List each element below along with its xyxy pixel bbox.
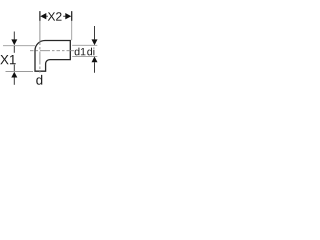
di label [87,48,94,56]
di dim bottom shaft [94,62,96,73]
di bottom extension line [72,55,97,57]
X1 top arrow [11,39,17,45]
d label [36,75,42,85]
di dim top shaft [94,26,96,39]
elbow body outline [35,41,70,72]
X1 top extension line [3,45,35,47]
X2 dim line segments [46,15,65,17]
X1 top arrow shaft [13,32,15,40]
X1 dim line upper segment [13,46,15,53]
di dim top arrow [92,39,98,45]
X2 left arrow [40,13,46,19]
d1 label [75,48,86,56]
X1 bottom arrow shaft [13,78,15,85]
X1 bottom arrow [11,72,17,78]
X2 dimension left tick [39,11,41,21]
X1 bottom extension line [6,71,34,73]
X1 dim line lower segment [13,65,15,72]
X2 label [48,12,62,20]
wire horizontal centerline [30,50,74,52]
X1 label [0,55,15,64]
X2 right arrow [65,13,71,19]
di dim bottom arrow [92,57,98,63]
wire vertical centerline / X2 left extension [39,11,41,73]
X2 right extension line [71,11,73,40]
di top extension line [72,44,97,46]
X2 dimension right tick [71,11,73,21]
